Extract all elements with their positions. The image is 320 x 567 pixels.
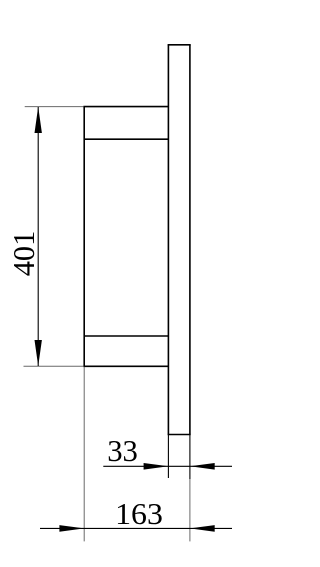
- dimension 401 extension line top: [25, 106, 84, 108]
- body box outline: [83, 107, 168, 367]
- lower rib line: [84, 335, 168, 337]
- dimension 33 line: [103, 465, 232, 467]
- svg-text:401: 401: [6, 231, 41, 277]
- dimension 163 extension line right: [189, 479, 191, 541]
- dimension 33 arrow right (points left): [190, 463, 215, 470]
- dimension 163 line: [40, 527, 232, 529]
- svg-text:163: 163: [115, 496, 163, 531]
- upper rib line: [84, 138, 168, 140]
- back plate (tall vertical bar) outline: [168, 45, 191, 435]
- dimension 33 extension line right: [189, 435, 191, 480]
- dimension 401 arrow up: [35, 107, 42, 133]
- dimension 401 line: [37, 107, 39, 366]
- svg-text:33: 33: [107, 433, 138, 468]
- dimension 33 extension line left: [167, 435, 169, 479]
- dimension 33 arrow left (points right): [144, 463, 169, 470]
- dimension 163 arrow left (points right): [59, 525, 84, 532]
- dimension 401 extension line bottom: [24, 365, 84, 367]
- dimension 163 arrow right (points left): [190, 525, 215, 532]
- dimension 401 arrow down: [35, 340, 42, 366]
- dimension 163 extension line left: [83, 367, 85, 542]
